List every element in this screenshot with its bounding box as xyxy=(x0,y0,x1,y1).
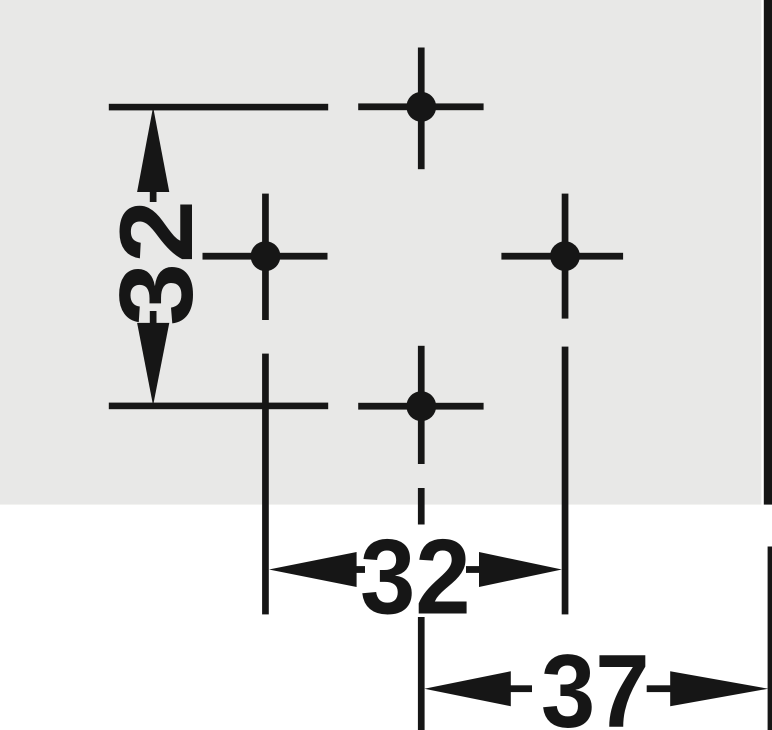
hole H3 (right) crosshair xyxy=(501,194,623,319)
horizontal dim 37: dimension line right tail xyxy=(647,685,671,692)
hole H4 center line dash 2 (through 37 dimension) xyxy=(418,617,425,730)
svg-text:37: 37 xyxy=(541,634,650,730)
vertical dim 32: up arrow xyxy=(137,107,169,202)
hole H2 center line (dashed extension down) xyxy=(262,354,269,615)
horizontal dim 32: right arrow xyxy=(479,552,562,587)
vertical dim 32: top extension line xyxy=(109,104,328,111)
hole H4 center line dash 1 xyxy=(418,488,425,525)
hole H3 center line (dashed extension down) xyxy=(562,347,569,615)
vertical dim 32: bottom extension line xyxy=(109,403,328,410)
hole H1 (top) crosshair xyxy=(358,48,483,170)
panel edge reference line (lower right) xyxy=(768,547,772,730)
hole H2 (left) crosshair xyxy=(203,194,328,320)
hole H4 (bottom) crosshair xyxy=(358,346,483,464)
horizontal dim 37: right arrow xyxy=(670,671,768,706)
vertical dim 32: down arrow xyxy=(137,311,169,406)
horizontal dim 32: dimension line left tail xyxy=(352,566,365,573)
horizontal dim 32: dimension line right tail xyxy=(466,566,481,573)
cabinet side panel (gray) xyxy=(0,0,761,505)
horizontal dim 32: left arrow xyxy=(269,552,357,587)
svg-text:32: 32 xyxy=(360,516,471,636)
svg-text:32: 32 xyxy=(99,200,215,326)
horizontal dim 37: left arrow xyxy=(424,671,510,706)
panel front edge band xyxy=(764,0,772,505)
horizontal dim 37: dimension line left tail xyxy=(508,685,532,692)
